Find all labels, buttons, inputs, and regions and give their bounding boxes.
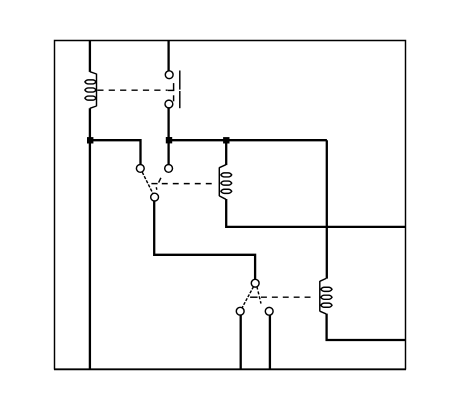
wire W7 coil L3 bottom to right border	[327, 314, 405, 340]
inductor L3 (relay coil)	[320, 278, 332, 314]
dashed actuator link S3 to L3	[250, 296, 314, 298]
wire W9 S3 left throw down to bottom bus	[240, 315, 242, 370]
blade dashed to left throw	[142, 172, 153, 193]
wire bus right segment	[169, 139, 327, 141]
blade dashes toward right throw	[155, 187, 158, 190]
junction dot B	[166, 137, 172, 143]
wire W10 S3 right throw down to bottom bus	[269, 315, 271, 370]
blade bar	[179, 71, 181, 90]
wire W1 left column bottom	[89, 108, 91, 370]
wire W5 coil L2 bottom to right border	[226, 199, 405, 227]
contact S2 (changeover, middle)	[136, 165, 172, 202]
inductor L1 (relay coil)	[85, 72, 97, 109]
blade dashes toward right throw	[257, 287, 261, 304]
blade dashed to left throw	[242, 287, 253, 308]
contact S1 (open switch, top)	[165, 71, 180, 109]
wire W1 left column top (through coil L1)	[89, 40, 91, 72]
wire W4 bus to coil L2	[225, 140, 227, 165]
junction dot A	[87, 137, 93, 143]
dashed actuator link L1 to S1	[97, 89, 167, 91]
actuator ticks	[173, 83, 175, 90]
wire W3 S1 bottom to S2 right throw	[167, 108, 169, 164]
dashed actuator link S2 to L2	[151, 183, 215, 185]
contact S3 (changeover, bottom)	[236, 279, 273, 315]
wire W6 bus corner down to coil L3	[326, 140, 328, 278]
border frame	[55, 41, 406, 370]
wire bottom bus	[54, 368, 406, 370]
wire W8 S2 common to S3 common	[154, 201, 255, 279]
wire bus left segment	[89, 140, 141, 164]
wire W2 above contact S1	[167, 40, 169, 70]
junction dot C	[223, 137, 229, 143]
inductor L2 (relay coil)	[219, 165, 231, 200]
